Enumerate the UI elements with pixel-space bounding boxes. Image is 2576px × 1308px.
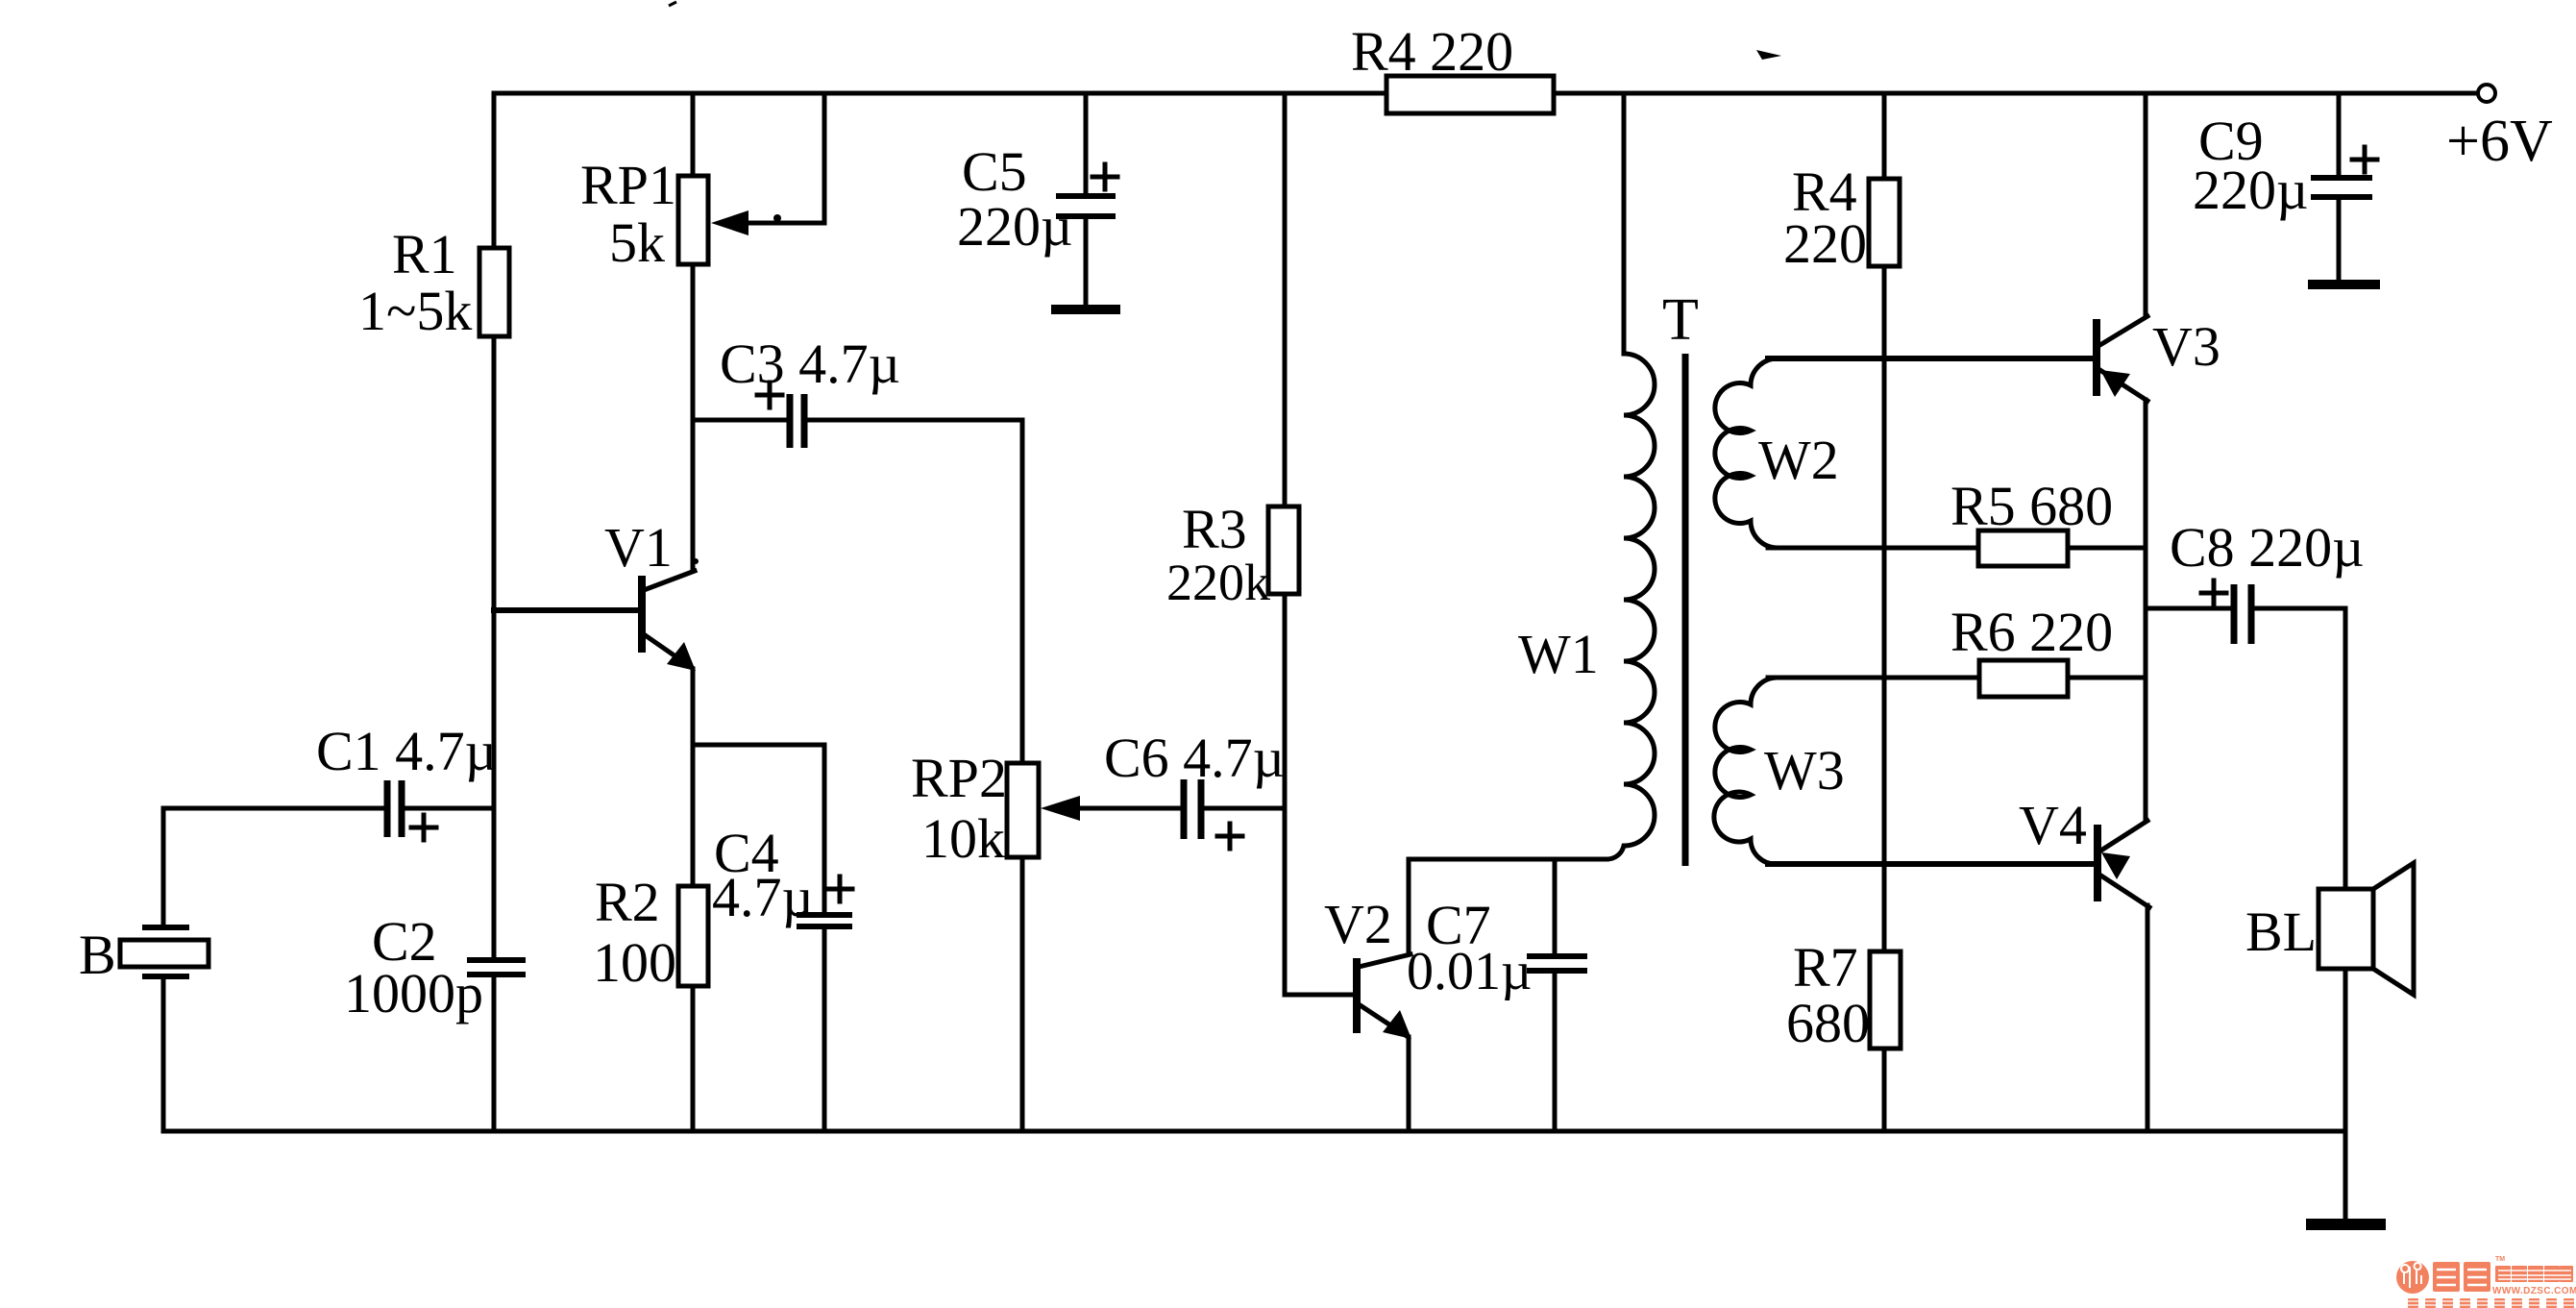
wire +6V top supply rail xyxy=(494,91,2478,96)
transistor V3 base bar xyxy=(2093,319,2100,396)
svg-text:R5 680: R5 680 xyxy=(1950,475,2113,537)
transformer T core xyxy=(1682,354,1689,866)
resistor R3 (220k) xyxy=(1268,506,1299,594)
wire C6 left lead (to RP2 wiper arrow) xyxy=(1057,806,1180,811)
transistor V2 emitter arrowhead xyxy=(1383,1010,1411,1039)
wire V1 emitter to R2 column xyxy=(691,669,696,1131)
svg-text:C6 4.7µ: C6 4.7µ xyxy=(1104,727,1285,789)
svg-text:R4 220: R4 220 xyxy=(1351,20,1513,83)
svg-text:W3: W3 xyxy=(1764,739,1845,802)
wire R2 to C4 branch xyxy=(693,745,824,911)
plus sign of C3 xyxy=(757,383,782,407)
wire C7 hanger xyxy=(1553,859,1558,953)
battery/microphone B top plate xyxy=(142,925,189,930)
transistor V4 base bar xyxy=(2094,825,2101,901)
svg-text:220: 220 xyxy=(1783,212,1867,275)
wire V4 collector to ground rail xyxy=(2146,905,2150,1131)
wire C9 bottom lead to ground symbol xyxy=(2337,201,2342,281)
plus sign of C9 xyxy=(2352,147,2377,172)
noise dot mid xyxy=(693,558,699,564)
noise smudge near R4 label xyxy=(1756,50,1781,60)
svg-text:C3 4.7µ: C3 4.7µ xyxy=(720,333,900,395)
svg-text:V1: V1 xyxy=(604,516,673,579)
capacitor C7 plates (0.01u) xyxy=(1527,956,1587,971)
svg-text:W2: W2 xyxy=(1758,429,1839,491)
wire C5 bottom lead to ground symbol xyxy=(1084,219,1089,306)
svg-text:B: B xyxy=(79,924,116,986)
wire V2 emitter to ground rail xyxy=(1407,1037,1411,1131)
wire RP2 bottom to ground rail xyxy=(1020,857,1025,1131)
resistor R4 (220) horizontal in rail xyxy=(1386,76,1554,113)
svg-text:T: T xyxy=(1662,287,1699,353)
wire R4/R7 bias column xyxy=(1882,93,1887,951)
svg-text:V4: V4 xyxy=(2019,794,2087,856)
svg-text:BL: BL xyxy=(2245,901,2317,963)
transistor V1 emitter arrowhead xyxy=(667,642,696,671)
svg-text:R3: R3 xyxy=(1182,498,1247,560)
svg-text:220k: 220k xyxy=(1166,554,1270,611)
transistor V1 collector lead xyxy=(644,571,695,590)
plus sign of C4 xyxy=(827,876,852,901)
resistor R6 (220) horizontal xyxy=(1979,660,2068,697)
svg-text:C1 4.7µ: C1 4.7µ xyxy=(316,720,497,782)
wire C2 bottom lead xyxy=(492,976,497,1131)
speaker BL horn xyxy=(2373,863,2414,995)
svg-text:5k: 5k xyxy=(609,211,665,274)
svg-text:RP2: RP2 xyxy=(911,747,1007,809)
wire W3 bottom line to V4 base xyxy=(1768,861,2094,867)
transistor V1 base bar xyxy=(638,576,646,653)
svg-text:C5: C5 xyxy=(962,140,1027,203)
noise dot left xyxy=(773,214,781,222)
potentiometer RP2 wiper arrowhead xyxy=(1041,796,1080,821)
svg-text:220µ: 220µ xyxy=(957,195,1072,258)
transistor V4 emitter arrowhead xyxy=(2101,852,2130,879)
resistor R4 (220) right bias xyxy=(1869,179,1900,266)
ground symbol below C9 xyxy=(2308,280,2380,289)
resistor R5 (680) horizontal xyxy=(1978,531,2068,566)
svg-text:+6V: +6V xyxy=(2446,109,2553,174)
svg-text:R6 220: R6 220 xyxy=(1950,601,2113,663)
wire C3 right lead to RP2 column xyxy=(808,420,1022,763)
noise speck top left xyxy=(669,2,676,6)
wire C1 left lead xyxy=(163,806,384,811)
wire C1 right lead xyxy=(405,806,494,811)
wire R3 column from rail to V2 base xyxy=(1285,93,1351,995)
plus sign of C6 xyxy=(1217,824,1242,849)
wire C4 bottom to ground rail xyxy=(822,929,827,1131)
wire C6 right lead xyxy=(1205,806,1285,811)
transformer T secondary winding W2 xyxy=(1715,358,1778,548)
wire C7 bottom to ground rail xyxy=(1553,974,1558,1131)
wire speaker bottom to ground symbol xyxy=(2343,969,2348,1219)
transistor V3 emitter lead xyxy=(2098,369,2147,401)
svg-text:TM: TM xyxy=(2495,1256,2505,1263)
svg-text:1~5k: 1~5k xyxy=(358,280,472,342)
transistor V2 collector lead xyxy=(1359,954,1411,967)
wire C5 top lead from rail xyxy=(1084,93,1089,193)
svg-text:R1: R1 xyxy=(392,223,457,285)
wire RP1 wiper feed from top rail xyxy=(723,93,824,223)
wire C9 top lead from rail xyxy=(2337,93,2342,174)
capacitor C1 plates (4.7u) xyxy=(387,780,402,837)
capacitor C6 plates (4.7u) xyxy=(1184,779,1201,839)
transistor V1 emitter lead xyxy=(644,634,691,667)
resistor R7 (680) xyxy=(1870,951,1901,1049)
transistor V2 base bar xyxy=(1353,958,1361,1033)
ground symbol below speaker xyxy=(2306,1219,2386,1230)
battery/microphone B body xyxy=(120,940,209,967)
wire R7 bottom to ground rail xyxy=(1882,1049,1887,1131)
svg-text:1000p: 1000p xyxy=(344,962,483,1024)
wire battery B bottom lead xyxy=(161,978,166,1131)
transistor V3 collector lead xyxy=(2098,316,2147,346)
capacitor C9 plates (220u) xyxy=(2311,178,2372,197)
wire ground bottom rail xyxy=(163,1129,2345,1134)
svg-text:R2: R2 xyxy=(595,871,660,933)
battery/microphone B bottom plate xyxy=(142,974,189,979)
capacitor C8 plates (220u) xyxy=(2234,584,2251,644)
svg-text:R7: R7 xyxy=(1793,936,1858,999)
svg-text:WWW.DZSC.COM: WWW.DZSC.COM xyxy=(2492,1286,2576,1296)
wire W1 top feed from rail xyxy=(1622,93,1627,354)
capacitor C4 plates (4.7u) xyxy=(797,915,852,926)
capacitor C5 plates (220u) xyxy=(1056,196,1116,216)
ground symbol below C5 xyxy=(1051,305,1120,314)
plus sign of C8 xyxy=(2201,580,2226,605)
svg-text:220µ: 220µ xyxy=(2193,159,2308,221)
wire V2 collector riser and W1 bottom feed xyxy=(1409,859,1607,954)
plus sign of C5 xyxy=(1092,164,1117,189)
wire W2 top line to V3 base xyxy=(1768,356,2093,361)
svg-text:C8 220µ: C8 220µ xyxy=(2170,516,2365,579)
transistor V3 emitter arrowhead xyxy=(2100,370,2130,397)
wire battery B top lead xyxy=(161,808,166,925)
speaker BL body xyxy=(2318,889,2373,969)
WATERMARK xyxy=(2396,1256,2576,1308)
svg-text:W1: W1 xyxy=(1518,623,1599,685)
wire V3 collector riser to rail xyxy=(2144,93,2148,316)
potentiometer RP1 body (5k) xyxy=(678,176,708,264)
transformer T secondary winding W3 xyxy=(1714,678,1778,864)
transistor V2 emitter lead xyxy=(1359,1004,1407,1036)
terminal +6V circle xyxy=(2478,85,2495,102)
svg-text:4.7µ: 4.7µ xyxy=(712,866,814,928)
svg-text:680: 680 xyxy=(1786,992,1870,1054)
svg-text:0.01µ: 0.01µ xyxy=(1407,942,1532,1001)
wire V1 base lead xyxy=(494,607,638,613)
wire W2 bottom line through R5 to output node xyxy=(1768,546,2146,551)
wire W3 top line through R6 to output node xyxy=(1768,676,2146,680)
wire C8 right lead to speaker column xyxy=(2255,608,2345,889)
transistor V4 collector lead xyxy=(2099,875,2149,907)
wire output node column V3 emitter to V4 emitter xyxy=(2144,400,2148,821)
wire C3 left lead xyxy=(693,418,786,423)
plus sign of C1 xyxy=(411,815,436,840)
resistor R2 (100) xyxy=(678,886,708,986)
wire left vertical branch (R1 / V1 base / C1 / C2 column) xyxy=(492,93,497,955)
svg-text:RP1: RP1 xyxy=(580,154,676,216)
capacitor C3 plates (4.7u) xyxy=(790,394,804,448)
resistor R1 (1~5k) xyxy=(479,248,509,336)
svg-text:100: 100 xyxy=(593,931,676,994)
wire RP1-V1 collector column xyxy=(691,93,696,571)
transformer T primary winding W1 xyxy=(1607,354,1655,859)
wire C8 left lead xyxy=(2146,606,2230,611)
potentiometer RP1 wiper arrowhead xyxy=(711,210,748,235)
svg-text:V3: V3 xyxy=(2152,315,2220,378)
capacitor C2 plates (1000p) xyxy=(467,960,526,975)
potentiometer RP2 body (10k) xyxy=(1007,763,1039,857)
svg-text:V2: V2 xyxy=(1324,893,1392,955)
transistor V4 emitter lead (arrow into base) xyxy=(2099,821,2147,851)
svg-text:10k: 10k xyxy=(921,807,1005,870)
